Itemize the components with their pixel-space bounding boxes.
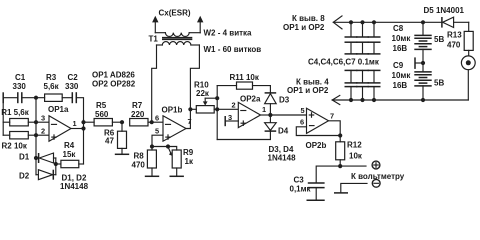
label D3 D4 1N4148 [268, 145, 297, 163]
node R4 tap dot [54, 162, 58, 166]
svg-text:D5 1N4001: D5 1N4001 [424, 6, 465, 15]
D right column [55, 158, 57, 175]
svg-text:2: 2 [232, 101, 236, 110]
svg-text:16В: 16В [393, 44, 408, 53]
wire C2 to feedback column [76, 98, 83, 120]
svg-text:OP1b: OP1b [162, 106, 183, 115]
diode D5 [424, 6, 469, 28]
wire OP1b output riser [186, 109, 190, 128]
svg-text:W2 - 4 витка: W2 - 4 витка [204, 29, 253, 38]
battery GB1 [414, 35, 444, 63]
node divider dots [150, 144, 170, 148]
svg-text:OP2 OP282: OP2 OP282 [92, 80, 136, 89]
label OP1 AD826 OP2 OP282 [92, 71, 136, 89]
left rail [2, 98, 4, 136]
svg-text:10к: 10к [349, 152, 363, 161]
svg-text:Т1: Т1 [149, 35, 159, 44]
svg-text:К выв. 8: К выв. 8 [292, 14, 325, 23]
svg-text:5В: 5В [434, 79, 444, 88]
svg-text:470: 470 [447, 41, 461, 50]
power arrow pin4 [287, 78, 468, 105]
svg-text:R8: R8 [134, 152, 145, 161]
resistor R6 [104, 122, 127, 154]
node R2 out dot [34, 133, 38, 137]
winding W2 [155, 29, 252, 38]
battery mid ground [415, 57, 425, 69]
wire OP1a output [71, 128, 84, 130]
potentiometer R9 [168, 147, 194, 176]
svg-text:D2: D2 [19, 172, 30, 181]
svg-text:1: 1 [73, 119, 77, 128]
capacitor C9 [392, 61, 432, 90]
wire to OP1a pin3 [36, 121, 49, 123]
capacitor C1 [13, 73, 27, 103]
node R1 out dot [34, 120, 38, 124]
input summing column [35, 98, 37, 175]
svg-text:R13: R13 [447, 31, 462, 40]
capacitor C3 [290, 176, 325, 200]
svg-text:1: 1 [262, 105, 266, 114]
op-amp OP1a [41, 105, 77, 141]
resistor R7 [130, 101, 152, 126]
node wiper dot [215, 96, 219, 100]
ground minus terminal [334, 183, 367, 193]
wire pin2 [217, 108, 238, 110]
label Cx(ESR) [159, 9, 191, 18]
winding W1 [157, 42, 262, 54]
label C4-C7 [308, 58, 380, 67]
svg-text:5В: 5В [434, 35, 444, 44]
svg-text:C2: C2 [68, 73, 79, 82]
label D1 D2 1N4148 [60, 174, 89, 192]
svg-text:ОР1 и ОР2: ОР1 и ОР2 [287, 86, 329, 95]
resistor R8 [132, 147, 157, 176]
svg-text:C1: C1 [15, 73, 26, 82]
svg-text:С9: С9 [393, 61, 404, 70]
op-amp OP1b [155, 106, 192, 142]
node battery bottom dot [421, 98, 425, 102]
capacitor C8 [392, 20, 432, 53]
op-amp OP2b [300, 106, 334, 150]
svg-text:R7: R7 [132, 101, 143, 110]
ground under R6 [115, 153, 129, 155]
svg-text:OP2a: OP2a [240, 95, 261, 104]
wire to plus terminal [340, 165, 366, 167]
svg-text:R12: R12 [347, 141, 362, 150]
resistor R13 [447, 22, 473, 56]
node D1 dot [34, 156, 38, 160]
diode D3 [265, 86, 290, 115]
svg-text:220: 220 [131, 110, 145, 119]
wire W1 right leg [190, 45, 199, 109]
resistor R3 [44, 73, 63, 101]
svg-text:47: 47 [105, 137, 114, 146]
svg-text:Cx(ESR): Cx(ESR) [159, 9, 191, 18]
diode D2 [19, 170, 56, 181]
resistor R12 [336, 136, 363, 167]
svg-text:1N4148: 1N4148 [60, 182, 89, 191]
svg-text:1к: 1к [185, 157, 194, 166]
svg-text:10мк: 10мк [392, 34, 412, 43]
wire OP1b pin5 to divider [152, 135, 163, 146]
svg-text:1N4148: 1N4148 [268, 154, 297, 163]
terminal minus [372, 179, 380, 187]
svg-text:5: 5 [301, 106, 305, 115]
probe arrow right [197, 16, 203, 33]
svg-text:R5: R5 [96, 101, 107, 110]
battery GB2 [414, 78, 444, 101]
wire to C3 [316, 166, 340, 182]
svg-text:OP1 AD826: OP1 AD826 [92, 71, 135, 80]
node OP2a pin2 dot [215, 107, 219, 111]
charging jack [461, 56, 475, 100]
wire OP2b pin6 feedback [296, 127, 340, 136]
node pin1/R5 dots [81, 120, 85, 131]
svg-text:15к: 15к [63, 150, 77, 159]
resistor R1 [1, 108, 36, 126]
svg-text:R2 10к: R2 10к [2, 142, 28, 151]
svg-text:2: 2 [41, 127, 45, 136]
diode D4 [265, 115, 289, 136]
wire OP2b output [329, 121, 341, 136]
node R5/R7/R6 dot [120, 120, 124, 124]
svg-text:7: 7 [330, 112, 334, 121]
ground under C3 [307, 199, 325, 201]
svg-text:R4: R4 [64, 141, 75, 150]
OP2a input column [216, 86, 218, 140]
wire to OP1a pin2 [36, 134, 49, 136]
svg-text:R9: R9 [183, 148, 194, 157]
svg-text:6: 6 [300, 118, 304, 127]
svg-text:OP1a: OP1a [48, 105, 69, 114]
transformer core [162, 38, 192, 40]
terminal plus [372, 161, 380, 169]
wire input to C1 [3, 97, 17, 99]
svg-text:С8: С8 [393, 24, 404, 33]
svg-text:OP2b: OP2b [306, 141, 327, 150]
svg-text:D1: D1 [19, 153, 30, 162]
capacitor C2 [65, 73, 79, 103]
svg-text:D4: D4 [278, 127, 289, 136]
svg-text:16В: 16В [393, 81, 408, 90]
wire C1 to node A [22, 97, 45, 99]
ground under R9 [170, 175, 184, 177]
feedback column down to R4 [83, 120, 85, 164]
label K voltmetru [351, 172, 405, 181]
node output dot [338, 164, 342, 168]
svg-text:С3: С3 [294, 176, 305, 185]
node feedback dot [338, 133, 342, 137]
transformer T1 label [149, 35, 159, 44]
capacitor C4 column [345, 20, 358, 102]
ground stub OP2a pin3 [225, 116, 238, 126]
ground under R8 [145, 175, 159, 177]
svg-text:330: 330 [13, 82, 27, 91]
node W1/R10 dot [188, 107, 192, 111]
svg-text:0,1мк: 0,1мк [290, 185, 312, 194]
svg-text:6: 6 [155, 114, 159, 123]
diode D1 [19, 153, 56, 164]
potentiometer R10 [190, 81, 217, 114]
svg-text:3: 3 [41, 114, 45, 123]
node A dot [34, 96, 38, 100]
resistor R5 [84, 101, 123, 126]
svg-text:W1 - 60 витков: W1 - 60 витков [204, 45, 262, 54]
power arrow pin8 [283, 14, 442, 32]
node OP2a out dot [268, 113, 272, 117]
capacitor C6 C7 column [368, 20, 381, 102]
svg-text:10мк: 10мк [392, 71, 412, 80]
input terminal bar [2, 92, 4, 103]
resistor R11 [217, 73, 270, 89]
svg-text:R1 5,6к: R1 5,6к [1, 108, 30, 117]
resistor R2 [2, 132, 37, 151]
svg-text:R3: R3 [46, 73, 57, 82]
probe arrow left [152, 16, 158, 33]
svg-text:560: 560 [95, 110, 109, 119]
svg-text:5: 5 [155, 127, 159, 136]
svg-text:22к: 22к [196, 89, 210, 98]
svg-text:470: 470 [132, 161, 146, 170]
capacitor C5 column [356, 20, 369, 102]
op-amp OP2a [228, 95, 266, 128]
wire divider node [152, 146, 168, 148]
svg-text:R11 10к: R11 10к [230, 73, 260, 82]
svg-text:7: 7 [188, 117, 192, 126]
svg-text:D3: D3 [279, 96, 290, 105]
wire OP2a out to OP2b pin5 [270, 114, 306, 116]
wire OP2a out [261, 114, 271, 116]
svg-text:330: 330 [65, 82, 79, 91]
wire W1 left leg [152, 45, 157, 122]
svg-text:ОР1 и ОР2: ОР1 и ОР2 [283, 23, 325, 32]
node OP1b pin6 dot [150, 120, 154, 124]
svg-text:С4,С4,С6,С7 0.1мк: С4,С4,С6,С7 0.1мк [308, 58, 380, 67]
resistor R4 [56, 141, 84, 168]
feedback bottom rail [217, 131, 270, 139]
wire pin6 [152, 121, 163, 123]
svg-text:5,6к: 5,6к [44, 82, 60, 91]
wire R3 to C2 [62, 97, 72, 99]
